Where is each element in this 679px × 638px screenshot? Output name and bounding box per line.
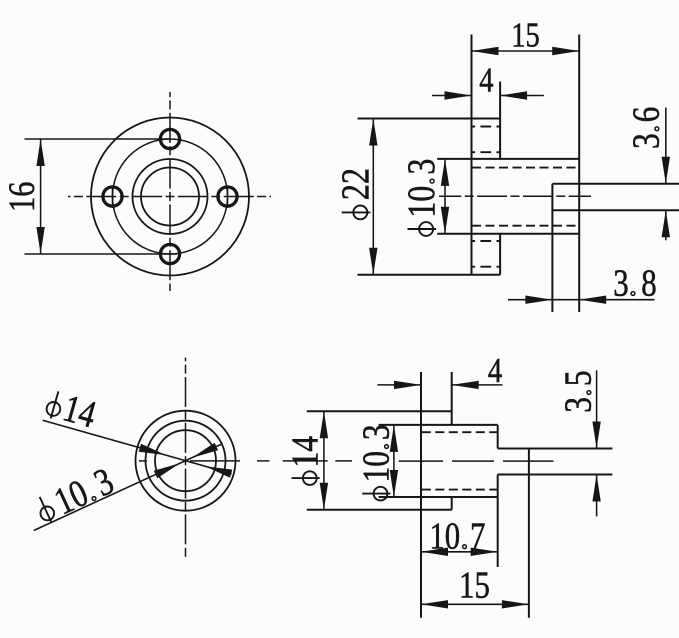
svg-text:3: 3 bbox=[557, 397, 600, 413]
svg-text:5: 5 bbox=[526, 16, 540, 54]
svg-text:0: 0 bbox=[445, 516, 460, 558]
svg-text:7: 7 bbox=[470, 516, 485, 558]
svg-text:1: 1 bbox=[459, 565, 474, 607]
svg-text:1: 1 bbox=[429, 516, 444, 558]
svg-text:0: 0 bbox=[399, 186, 443, 202]
svg-text:3: 3 bbox=[613, 262, 628, 304]
svg-text:6: 6 bbox=[625, 107, 668, 123]
svg-text:3: 3 bbox=[399, 159, 443, 175]
svg-text:5: 5 bbox=[557, 370, 600, 386]
svg-text:0: 0 bbox=[354, 451, 397, 467]
svg-text:4: 4 bbox=[284, 436, 327, 452]
svg-text:3: 3 bbox=[354, 424, 397, 440]
svg-text:4: 4 bbox=[479, 61, 493, 99]
svg-text:8: 8 bbox=[641, 262, 656, 304]
svg-text:1: 1 bbox=[284, 452, 327, 468]
svg-text:2: 2 bbox=[333, 168, 377, 184]
svg-text:6: 6 bbox=[2, 182, 42, 197]
svg-text:1: 1 bbox=[511, 16, 525, 54]
svg-text:2: 2 bbox=[333, 184, 377, 200]
svg-text:5: 5 bbox=[475, 565, 490, 607]
svg-text:1: 1 bbox=[354, 467, 397, 483]
svg-text:3: 3 bbox=[625, 133, 668, 149]
svg-text:1: 1 bbox=[2, 197, 42, 212]
svg-text:4: 4 bbox=[488, 352, 502, 390]
svg-text:1: 1 bbox=[399, 202, 443, 218]
